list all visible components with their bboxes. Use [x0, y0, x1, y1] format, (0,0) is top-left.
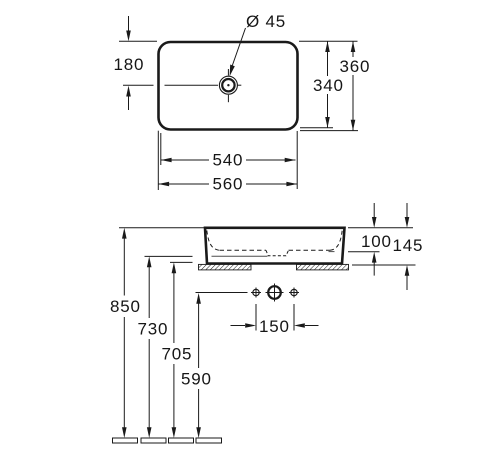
basin outer outline (plan view rounded rectangle) [159, 42, 298, 130]
dimension 540: line left segment [161, 159, 209, 161]
drain centerline vertical tick below [227, 95, 229, 102]
dimension 150: left extension vertical [255, 304, 257, 331]
svg-text:560: 560 [213, 175, 244, 194]
centre faucet hole circle [268, 286, 281, 299]
basin inner profile dashed bottom run right [289, 249, 331, 251]
dimension 340: upper arrowhead [325, 41, 330, 52]
dimension 590: lower arrowhead [196, 427, 201, 438]
dimension 180: top extension line [119, 40, 157, 42]
floor symbol segment 3 [169, 438, 194, 443]
dimension 850: lower arrowhead [122, 427, 127, 438]
drain hole outer circle [219, 76, 237, 94]
left faucet hole small circle [253, 289, 259, 295]
svg-text:150: 150 [259, 317, 290, 336]
left faucet hole cross [251, 292, 261, 294]
basin inner drain recess dashed [266, 250, 289, 256]
drain centerline vertical tick above [227, 69, 229, 76]
dimension 705: upper shaft [173, 272, 175, 344]
floor symbol segment 4 [196, 438, 222, 443]
right side extension line outer bottom (360) [300, 130, 358, 132]
dimension 560: right arrowhead [286, 182, 297, 187]
dimension 705: lower arrowhead [172, 427, 177, 438]
dimension 540: left arrowhead [161, 158, 172, 163]
dimension 360: line lower segment [352, 75, 354, 131]
floor symbol segment 1 [113, 438, 138, 443]
countertop section hatch left [199, 264, 252, 270]
dimension 540: line right segment [246, 159, 296, 161]
drain hole inner circle [222, 79, 234, 91]
dimension 705: upper arrowhead [172, 262, 177, 273]
dimension 360: lower arrowhead [351, 120, 356, 131]
extension line rim level right (100/145) [348, 227, 413, 229]
svg-text:145: 145 [393, 236, 424, 255]
dimension 145: lower arrowhead (up) [405, 265, 410, 276]
extension line outer bottom level (145) [352, 264, 416, 266]
svg-text:705: 705 [162, 345, 193, 364]
leader arrowhead [230, 65, 235, 77]
dimension 100: lower arrow shaft [373, 262, 375, 276]
dimension 360: upper arrowhead [351, 41, 356, 52]
dimension 850: lower shaft [123, 317, 125, 429]
dimension 100: upper arrowhead (down) [372, 217, 377, 228]
dimension 340: line upper segment [327, 41, 329, 76]
dimension 730: lower arrowhead [147, 427, 152, 438]
dimension 180: upper arrow shaft [128, 16, 130, 31]
right side extension line top (360/340) [299, 40, 358, 42]
dimension 590: lower shaft [198, 389, 200, 429]
floor symbol segment 2 [141, 438, 166, 443]
dimension 705: lower shaft [173, 364, 175, 429]
dimension 360: line upper segment [352, 41, 354, 57]
countertop section hatch right [297, 264, 349, 270]
right side extension line inner bottom (340) [300, 127, 333, 129]
centre faucet hole ticks [266, 292, 284, 294]
svg-text:540: 540 [213, 151, 244, 170]
dimension 100: upper arrow shaft [373, 203, 375, 217]
extension line at hole centre level (590) [196, 292, 248, 294]
basin inner profile dashed bottom run [220, 249, 267, 251]
svg-text:360: 360 [340, 57, 371, 76]
basin inner profile (hidden, dashed) left curve [207, 231, 220, 251]
drain center dot [227, 84, 229, 86]
dimension 145: upper arrowhead (down) [405, 217, 410, 228]
dimension 180: lower arrowhead (up) [126, 86, 131, 97]
dimension 560: line left segment [158, 183, 209, 185]
dimension 850: upper shaft [123, 237, 125, 296]
svg-text:180: 180 [114, 55, 145, 74]
extension line inner bottom level (100) [348, 251, 380, 253]
dimension 560: line right segment [246, 183, 297, 185]
right extension line vertical (540/560) [296, 131, 298, 189]
dimension 145: upper arrow shaft [406, 203, 408, 217]
thin visible bottom edge line left [212, 255, 268, 257]
extension line 730 level [145, 255, 193, 257]
svg-text:340: 340 [313, 76, 344, 95]
dimension 150: right arrowhead [294, 323, 305, 328]
right faucet hole cross [289, 292, 299, 294]
svg-text:590: 590 [181, 370, 212, 389]
dimension 560: left arrowhead [158, 182, 169, 187]
extension line rim level left (850) [119, 227, 204, 229]
dimension 730: upper arrowhead [147, 256, 152, 267]
left extension line vertical (540) [160, 133, 162, 165]
dimension 590: upper arrowhead [196, 293, 201, 304]
extension line 705 level [170, 261, 193, 263]
dimension 180: upper arrowhead (down) [126, 31, 131, 42]
dimension 340: line lower segment [327, 94, 329, 128]
dimension 180: lower extension line (drain centerline level) [123, 84, 154, 86]
dimension 340: lower arrowhead [325, 117, 330, 128]
svg-text:100: 100 [361, 232, 392, 251]
basin inner profile right curve dashed [330, 231, 342, 251]
thin visible bottom edge line right [329, 251, 335, 253]
dimension 540: right arrowhead [285, 158, 296, 163]
svg-text:850: 850 [110, 297, 141, 316]
dimension 150: left arrowhead [245, 323, 256, 328]
dimension 100: lower arrowhead (up) [372, 252, 377, 263]
svg-text:730: 730 [138, 320, 169, 339]
dimension 150: right extension vertical [293, 304, 295, 331]
leader line from Ø 45 label to drain [232, 28, 246, 67]
left extension line vertical (560) [157, 131, 159, 190]
dimension 180: lower arrow shaft [128, 96, 130, 110]
basin body outline (front view) [205, 228, 345, 264]
dimension 150: left arrow line [231, 325, 246, 327]
dimension 730: upper shaft [148, 266, 150, 319]
right faucet hole small circle [291, 289, 297, 295]
dimension 590: upper shaft [198, 302, 200, 368]
dimension 850: upper arrowhead [122, 228, 127, 239]
dimension 150: right arrow line [305, 325, 319, 327]
drain centerline horizontal (plan) [165, 84, 219, 86]
svg-text:Ø 45: Ø 45 [246, 12, 286, 31]
dimension 730: lower shaft [148, 339, 150, 429]
dimension 145: lower arrow shaft [406, 275, 408, 290]
